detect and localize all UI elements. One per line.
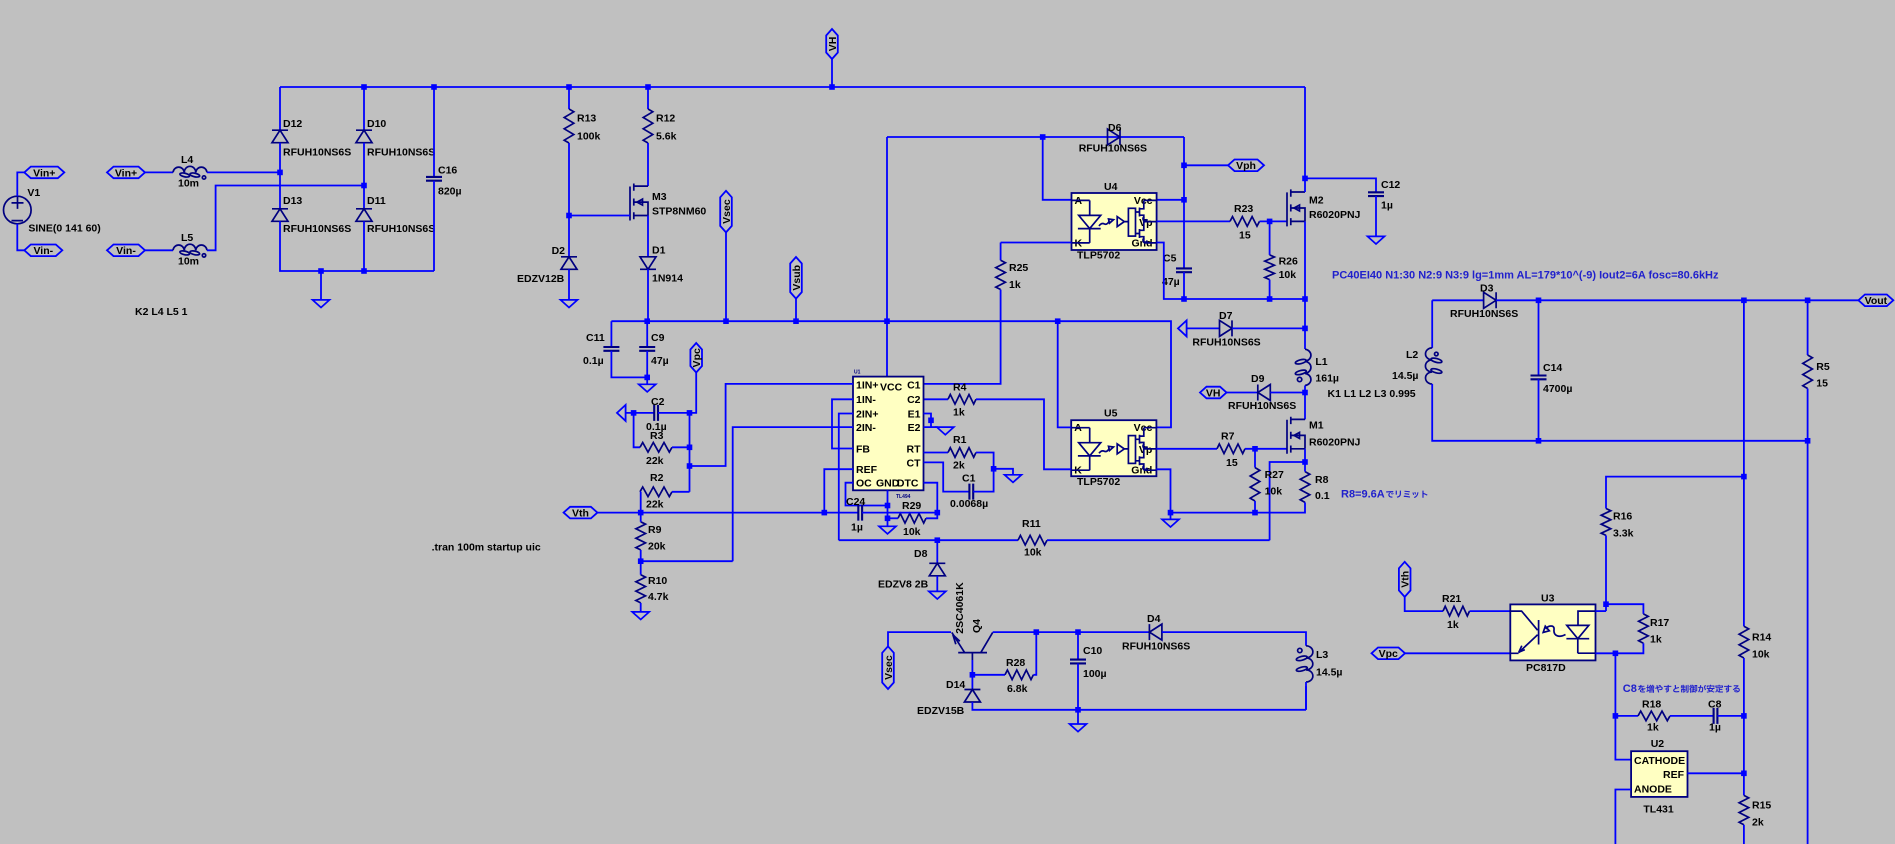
junction top rail R12 [645,84,651,90]
junction R16 branch [1741,474,1747,480]
svg-text:D1: D1 [652,245,666,257]
wire D10 to D11 [363,143,365,209]
flag Vsec [720,191,732,233]
capacitor C24 [858,505,862,521]
wire Q4 bottom rail [972,702,1306,710]
svg-text:Vth: Vth [1400,571,1412,588]
junction GND R29 [885,516,891,522]
flag Vin- at filter [107,245,145,257]
svg-text:ANODE: ANODE [1634,783,1672,795]
inductor L3 [1306,646,1313,682]
wire R3 left [634,413,640,447]
wire R18 to C8 [1670,715,1714,717]
wire Vsub rail to U5 Vcc [611,321,1171,427]
ground E1 E2 [937,427,954,435]
wire U1 C2 pin to R4 [924,398,949,400]
wire gnd stub [1170,513,1172,520]
wire R4 to U5 cathode [976,399,1071,469]
junction M1 source R8 [1302,459,1308,465]
wire Vph column [1183,137,1185,268]
junction R16 R17 [1603,601,1609,607]
wire U3 LED anode pin [1596,610,1607,612]
wire L4 to bridge node A [207,171,280,173]
wire arrow to D7 [1186,327,1220,329]
svg-text:U3: U3 [1541,593,1555,605]
svg-text:REF: REF [856,464,878,476]
phase dot L5 [202,254,205,257]
wire divider to 2IN- column [641,560,733,562]
junction R7 R27 [1252,446,1258,452]
svg-text:2k: 2k [953,460,965,472]
svg-text:C8: C8 [1708,699,1722,711]
wire D1 to Vsub rail [647,269,649,321]
svg-text:C12: C12 [1381,179,1400,191]
svg-text:10k: 10k [1279,269,1297,281]
wire U2 REF pin [1688,772,1744,774]
svg-text:RFUH10NS6S: RFUH10NS6S [1192,337,1260,349]
flag Vsec at Q4 [882,646,894,689]
wire R27 bottom [1254,501,1256,513]
svg-text:D14: D14 [946,679,965,691]
junction divider C2 [687,410,693,416]
resistor R10 [636,575,646,603]
svg-text:U5: U5 [1104,408,1118,420]
wire L1 tail [1304,386,1306,393]
svg-text:PC817D: PC817D [1526,662,1566,674]
diode D14 zener [964,690,980,703]
wire gnd stub U1 [887,518,889,526]
svg-text:10m: 10m [178,256,199,268]
U2 pin labels [1634,755,1685,796]
wire L3 bottom [1305,686,1307,710]
junction Vsub U5 anode [1055,318,1061,324]
diode D1 [640,257,656,270]
wire U4 Gnd to local rail [1157,243,1305,300]
junction divider 1IN+ [687,463,693,469]
svg-text:R26: R26 [1279,256,1298,268]
wire U5 Gnd pin [1156,469,1170,512]
wire C9 top [646,321,648,347]
ground power stage [1162,519,1179,527]
ground C12 [1368,236,1385,244]
svg-text:1N914: 1N914 [652,273,683,285]
svg-text:15: 15 [1226,457,1238,469]
svg-text:R29: R29 [902,500,921,512]
svg-text:M3: M3 [652,191,667,203]
wire VH rail to M2 drain [1304,87,1306,192]
junction R5 top [1805,298,1811,304]
svg-text:R27: R27 [1265,469,1284,481]
wire E pins to ground [931,426,938,428]
resistor R15 [1739,795,1749,824]
svg-text:C1: C1 [962,473,976,485]
svg-text:VCC: VCC [880,382,903,394]
inductor L1 [1305,349,1311,385]
wire L5 to bridge node B [207,186,364,251]
wire R14 column upper [1743,300,1745,626]
wire L2 top [1431,300,1433,348]
wire Vpc to U3 [1405,652,1510,654]
svg-text:M2: M2 [1309,195,1324,207]
svg-text:D3: D3 [1480,283,1494,295]
wire U3 LED cathode pin [1596,652,1616,654]
svg-text:R7: R7 [1221,431,1235,443]
wire arrow to C2 [626,412,655,414]
wire C9 bottom [646,351,648,378]
svg-text:D11: D11 [367,195,386,207]
junction R5 return [1805,438,1811,444]
wire return down right edge [1807,441,1809,844]
junction top rail C16 [431,84,437,90]
marker arrow D7 cathode [1178,320,1187,336]
wire R3 right [672,446,690,448]
junction base D14 R28 [970,672,976,678]
wire RT pin [924,452,949,454]
svg-text:R16: R16 [1613,511,1632,523]
svg-text:R9: R9 [648,524,662,536]
wire gate M3 [569,215,630,217]
capacitor C1 [969,484,973,500]
svg-text:10k: 10k [1752,649,1770,661]
wire R15 bottom [1743,825,1745,844]
junction D6 anode tap [1040,134,1046,140]
svg-text:15: 15 [1239,230,1251,242]
svg-text:Vp: Vp [1139,444,1152,456]
ground C10 [1070,724,1087,732]
svg-text:R13: R13 [577,113,596,125]
wire to M1 drain [1304,393,1306,420]
svg-text:Vin-: Vin- [116,245,136,257]
junction C14 return [1536,438,1542,444]
svg-text:R1: R1 [953,434,967,446]
wire R18 left [1615,715,1638,717]
svg-text:RFUH10NS6S: RFUH10NS6S [367,147,435,159]
wire to Vpc flag [690,373,697,413]
ground D8 [929,591,946,599]
resistor R28 [1005,670,1033,680]
wire to Vph flag [1184,164,1228,166]
junction OC GND [885,503,891,509]
svg-text:RFUH10NS6S: RFUH10NS6S [367,223,435,235]
wire D11 to bottom rail [363,221,365,271]
junction bridge node B [361,183,367,189]
diode D2 [561,257,577,270]
wire timing gnd stub [994,469,1013,475]
junction C10 gnd rail [1075,707,1081,713]
wire D7 to M2 source column [1232,327,1305,329]
svg-text:100µ: 100µ [1083,668,1107,680]
wire Vsub to U1 VCC pin [886,137,888,377]
wire R1 to gnd node [976,453,994,469]
resistor R25 [996,260,1006,289]
wire D8 top [936,540,938,563]
capacitor C14 [1531,376,1547,380]
wire 2IN+ down [839,414,853,541]
junction Vsub D1 [644,318,650,324]
svg-text:SINE(0 141 60): SINE(0 141 60) [28,223,100,235]
wire OC to GND [846,483,888,506]
wire D4 to L3 [1162,632,1306,646]
svg-text:M1: M1 [1309,420,1324,432]
svg-text:1IN-: 1IN- [856,394,876,406]
flag Vin+ at source [24,167,64,179]
svg-text:22k: 22k [646,499,664,511]
wire to R16 [1606,477,1744,509]
junction R28 collector [1034,629,1040,635]
wire R28 to collector [1033,632,1036,675]
wire R25 top [1000,243,1002,261]
svg-text:R21: R21 [1442,593,1461,605]
wire R2 to Vth rail [640,492,642,513]
svg-text:R8=9.6A: R8=9.6A [1341,488,1385,500]
junction C2 R3 left [631,410,637,416]
svg-text:10k: 10k [903,526,921,538]
svg-text:R14: R14 [1752,632,1771,644]
svg-text:Vin+: Vin+ [115,167,137,179]
wire R5 top [1807,300,1809,355]
wire R12 top [647,87,649,109]
wire sense row left [839,539,1018,541]
diode D13 [272,209,288,222]
junction C10 top [1075,629,1081,635]
junction R13 D2 gate [566,213,572,219]
capacitor C2 [654,405,658,421]
wire C14 top [1538,300,1540,375]
wire R9 top [640,513,642,522]
svg-text:Vsec: Vsec [883,655,895,680]
wire C10 bottom [1077,663,1079,709]
svg-text:D9: D9 [1251,373,1265,385]
wire C16 bottom [433,181,435,271]
wire 1IN+ to divider node [690,384,854,466]
svg-text:Vsub: Vsub [791,265,803,291]
resistor R17 [1639,614,1649,643]
voltage source V1 [3,196,31,224]
wire V1 minus to Vin- flag [17,224,24,251]
U3 internal symbol [1510,611,1595,653]
svg-text:RT: RT [907,444,922,456]
phase dot L2 [1435,352,1439,356]
svg-text:R17: R17 [1650,617,1669,629]
junction R18 row [1613,713,1619,719]
junction top rail R13 [566,84,572,90]
resistor R23 [1230,217,1260,227]
wire GND pin down [887,490,889,518]
junction top rail VH flag [829,84,835,90]
junction Vph flag [1181,163,1187,169]
svg-text:1k: 1k [953,407,965,419]
svg-text:R6020PNJ: R6020PNJ [1309,209,1361,221]
wire U4 Vp to R23 [1157,220,1230,222]
wire R13 top [568,87,570,109]
wire to bridge ground [320,271,322,300]
svg-text:C1: C1 [907,379,921,391]
svg-text:R2: R2 [650,472,664,484]
wire output return rail [1432,384,1807,441]
junction bottom rail mid [361,268,367,274]
svg-text:14.5µ: 14.5µ [1316,667,1343,679]
svg-text:D2: D2 [552,245,566,257]
svg-text:OC: OC [856,478,872,490]
wire U5 Vp to R7 [1156,448,1217,450]
junction R1 C1 gnd [991,466,997,472]
flag Vph [1228,160,1264,172]
wire C10 top [1077,632,1079,660]
marker arrow C2 left [617,405,626,421]
flag Vout [1858,295,1893,307]
junction DTC node [935,510,941,516]
phase dot L3 [1298,648,1302,652]
svg-text:L3: L3 [1316,649,1328,661]
svg-text:K1 L1 L2 L3 0.995: K1 L1 L2 L3 0.995 [1328,388,1416,400]
svg-text:10m: 10m [178,178,199,190]
svg-text:5.6k: 5.6k [656,131,677,143]
svg-text:2IN-: 2IN- [856,422,876,434]
svg-text:RFUH10NS6S: RFUH10NS6S [283,223,351,235]
wire C16 top [433,87,435,177]
wire C8 right [1717,715,1744,717]
svg-text:R11: R11 [1022,518,1041,530]
resistor R3 [640,443,672,453]
wire R9 bottom [640,550,642,575]
junction C5 local rail [1181,296,1187,302]
svg-text:RFUH10NS6S: RFUH10NS6S [1450,308,1518,320]
svg-text:TL431: TL431 [1643,804,1674,816]
inductor L5 [173,244,207,250]
resistor R9 [636,522,646,550]
wire V1 plus to Vin+ flag [17,172,24,196]
wire to U2 cathode [1615,653,1631,759]
ground R10 [632,612,649,620]
wire C11 bottom [611,351,647,378]
svg-text:EDZV12B: EDZV12B [517,273,565,285]
wire R8 to gnd rail [1171,502,1306,512]
junction Vth REF [822,510,828,516]
junction C8 R14 [1741,713,1747,719]
svg-text:0.0068µ: 0.0068µ [950,498,988,510]
svg-text:EDZV8 2B: EDZV8 2B [878,579,929,591]
svg-text:820µ: 820µ [438,186,462,198]
svg-text:D8: D8 [914,548,928,560]
svg-text:2SC4061K: 2SC4061K [954,582,966,634]
resistor R16 [1601,509,1611,536]
svg-text:TLP5702: TLP5702 [1077,250,1120,262]
junction D8 sense [935,537,941,543]
flag VH top [826,29,838,59]
svg-text:C24: C24 [846,496,865,508]
diode D8 zener [929,563,945,576]
wire U2 anode down [1615,790,1631,844]
svg-text:1µ: 1µ [1381,200,1393,212]
svg-text:C2: C2 [907,394,921,406]
diode D4 [1149,624,1162,640]
wire U4 Vcc pin [1157,199,1184,201]
U5 internal symbol [1072,428,1157,471]
svg-text:15: 15 [1816,378,1828,390]
svg-text:C5: C5 [1163,253,1177,265]
diode D9 [1258,385,1271,401]
resistor R11 [1018,535,1047,545]
flag Vth main [564,507,598,519]
svg-text:Vsec: Vsec [721,199,733,224]
wire C10 gnd stub [1077,710,1079,724]
svg-text:L4: L4 [181,154,193,166]
wire R10 bottom [640,603,642,612]
svg-text:Vout: Vout [1865,295,1888,307]
junction bottom rail ground [318,268,324,274]
svg-text:K2 L4 L5 1: K2 L4 L5 1 [135,306,188,318]
wire D8 bottom [936,576,938,592]
wire Vsub to U5 anode [1058,321,1072,427]
svg-text:1k: 1k [1650,634,1662,646]
mosfet M3 [630,184,648,221]
svg-text:R15: R15 [1752,800,1771,812]
junction R26 local rail [1267,296,1273,302]
svg-text:R28: R28 [1006,657,1025,669]
wire CT pin to C1 [924,462,970,491]
svg-text:C11: C11 [586,332,605,344]
wire VH top rail [280,86,1305,88]
wire D2 top [568,216,570,257]
svg-text:R5: R5 [1816,361,1830,373]
svg-text:C16: C16 [438,165,457,177]
phase dot L1 [1297,377,1301,381]
mosfet M1 [1287,417,1305,454]
svg-text:10k: 10k [1265,486,1283,498]
svg-text:1k: 1k [1009,279,1021,291]
svg-text:RFUH10NS6S: RFUH10NS6S [1228,400,1296,412]
junction top rail D10 [361,84,367,90]
svg-text:D6: D6 [1108,122,1122,134]
diode D10 [356,130,372,143]
wire C2 right [658,412,690,414]
diode D11 [356,209,372,222]
svg-text:4.7k: 4.7k [648,591,669,603]
svg-text:C10: C10 [1083,645,1102,657]
svg-text:1k: 1k [1447,619,1459,631]
resistor R1 [948,448,976,458]
svg-text:Vpc: Vpc [691,348,703,367]
diode D12 [272,130,288,143]
wire R26 bottom [1269,280,1271,299]
wire Vsub flag down [795,299,797,322]
wire R12 to M3 drain [647,143,649,186]
svg-text:E2: E2 [908,422,921,434]
svg-text:C14: C14 [1543,362,1562,374]
svg-text:VH: VH [827,37,839,52]
ground timing [1005,475,1022,483]
svg-text:E1: E1 [908,408,921,420]
wire to U4 anode [1043,137,1072,200]
svg-text:R23: R23 [1234,203,1253,215]
svg-text:R18: R18 [1642,699,1661,711]
junction REF R15 [1741,771,1747,777]
svg-text:PC40EI40 N1:30 N2:9 N3:9 lg=1m: PC40EI40 N1:30 N2:9 N3:9 lg=1mm AL=179*1… [1332,269,1719,281]
resistor R21 [1443,606,1470,616]
svg-text:Vin+: Vin+ [33,167,55,179]
resistor R4 [948,395,976,405]
svg-text:14.5µ: 14.5µ [1392,370,1419,382]
op-amp U1 TL494 controller [853,377,924,491]
svg-text:C9: C9 [651,332,665,344]
capacitor C8 [1714,708,1718,724]
flag Vin- at source [24,245,62,257]
wire M3 source to D1 [647,216,649,257]
resistor R26 [1265,255,1275,280]
junction C9 C11 ground [644,375,650,381]
wire C1 to gnd node [973,469,993,492]
wire C5 bottom [1183,272,1185,299]
